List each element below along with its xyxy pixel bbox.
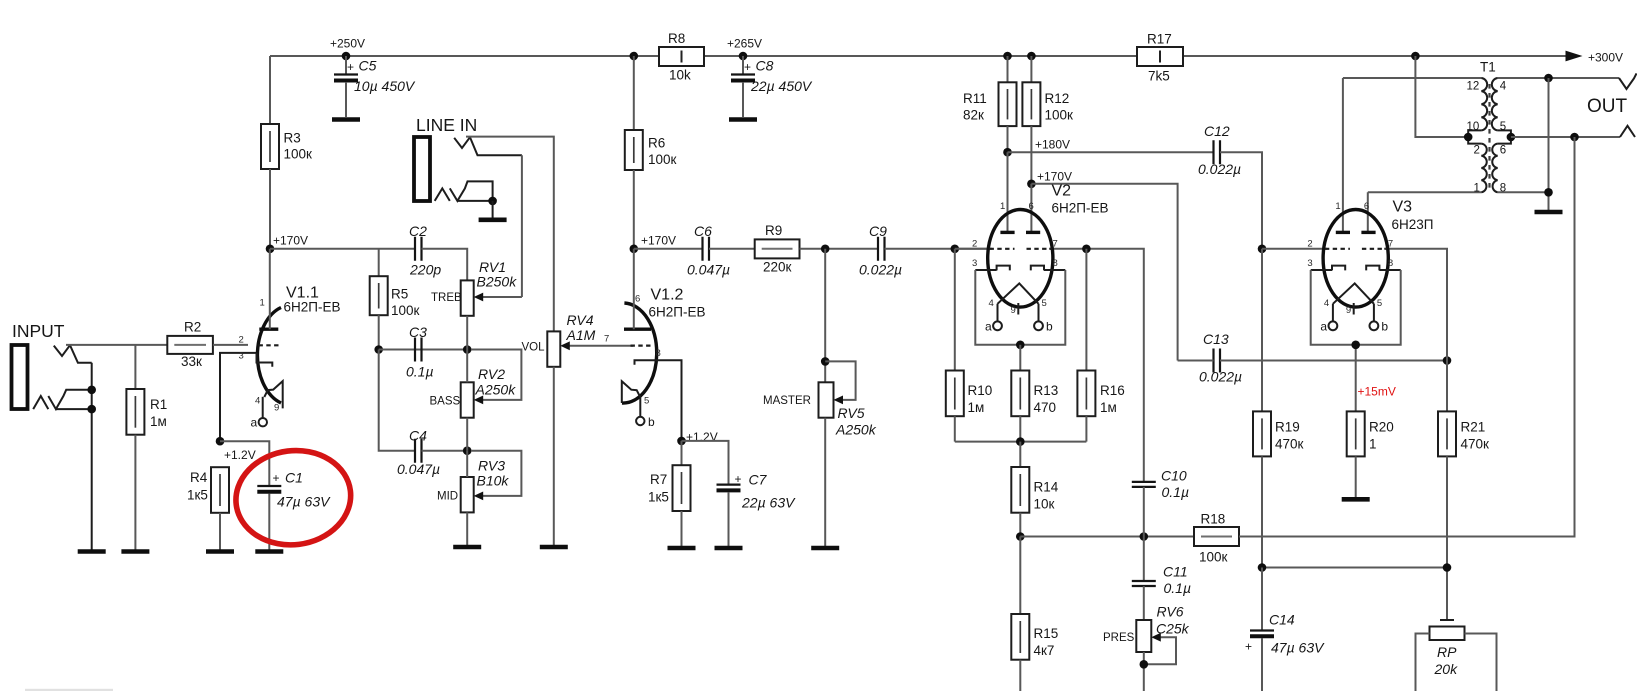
resistor R12 — [1022, 56, 1073, 184]
ground below RV3 — [453, 545, 481, 550]
wire T1 pin 8 to ground branch — [1498, 191, 1549, 193]
line-in jack sleeve contact — [435, 188, 450, 201]
resistor R9 — [755, 223, 800, 275]
line-in jack tip contact — [454, 137, 470, 148]
potentiometer RV5 MASTER — [763, 361, 877, 548]
svg-text:0.1µ: 0.1µ — [406, 364, 434, 380]
svg-text:INPUT: INPUT — [12, 321, 65, 341]
capacitor C3 — [406, 324, 434, 380]
ground below RV5 — [811, 546, 839, 551]
wire +170V line to C13 drop — [1031, 184, 1177, 361]
resistor R14 — [1011, 442, 1058, 537]
junction line-in sleeve — [488, 197, 497, 206]
wire R18 feedback line — [1020, 536, 1194, 538]
junction R6 on rail — [630, 52, 639, 61]
wire tip leaf to RV1 wiper — [521, 155, 523, 297]
svg-text:470к: 470к — [1461, 437, 1490, 452]
svg-text:V3: V3 — [1393, 199, 1413, 216]
wire line-in tip to VOL top — [466, 137, 554, 332]
wire V3 anode2 to T1 pin 1 — [1368, 191, 1482, 193]
junction R12 on rail — [1027, 52, 1036, 61]
junction C4 / RV2 bottom / RV3 — [463, 446, 472, 455]
svg-text:R20: R20 — [1369, 420, 1394, 435]
svg-text:C14: C14 — [1269, 612, 1295, 628]
input jack tip switch leaf — [70, 345, 92, 363]
svg-text:PRES: PRES — [1103, 632, 1135, 644]
svg-text:+: + — [1245, 640, 1252, 654]
junction RV6 wiper return — [1140, 660, 1149, 669]
svg-text:33к: 33к — [181, 354, 202, 369]
svg-text:A1M: A1M — [566, 327, 596, 343]
junction NFB left — [1258, 563, 1267, 572]
svg-text:1м: 1м — [1100, 400, 1117, 415]
wire V3 grid lead — [1262, 248, 1327, 250]
wire V1.1 cathode to +1.2V node — [220, 353, 257, 441]
svg-text:LINE IN: LINE IN — [416, 115, 477, 135]
junction jack leaf — [87, 386, 96, 395]
resistor R6 — [625, 56, 677, 249]
svg-text:R8: R8 — [668, 31, 685, 46]
svg-text:47µ 63V: 47µ 63V — [1271, 640, 1325, 656]
wire secondary tap to OUT sleeve — [1511, 136, 1620, 138]
svg-text:+170V: +170V — [641, 234, 676, 248]
svg-text:TREB: TREB — [431, 292, 462, 304]
svg-text:1: 1 — [260, 298, 265, 309]
transformer T1 core — [1488, 84, 1490, 189]
wire C6 to R9 — [709, 248, 755, 250]
svg-text:6Н2П-ЕВ: 6Н2П-ЕВ — [649, 305, 706, 320]
potentiometer RV3 MID — [437, 451, 521, 545]
resistor R13 — [1011, 345, 1058, 442]
svg-text:R3: R3 — [284, 131, 301, 146]
svg-text:+15mV: +15mV — [1358, 385, 1396, 399]
resistor R15 — [1011, 537, 1058, 691]
svg-text:+300V: +300V — [1588, 51, 1623, 65]
svg-text:0.047µ: 0.047µ — [687, 262, 730, 278]
capacitor C1 — [220, 441, 331, 551]
junction T1 secondary tap — [1507, 133, 1516, 142]
svg-text:C11: C11 — [1163, 564, 1188, 580]
svg-text:7: 7 — [604, 334, 609, 345]
input jack sleeve leaf — [48, 390, 91, 409]
capacitor C13 — [1199, 331, 1242, 385]
svg-text:22µ 450V: 22µ 450V — [750, 78, 813, 94]
junction OUT sleeve branch — [1570, 133, 1579, 142]
+300V arrowhead — [1566, 51, 1583, 62]
wire +170V node to C2 line — [270, 248, 415, 250]
resistor R18 — [1194, 512, 1239, 565]
svg-text:100к: 100к — [648, 152, 677, 167]
svg-text:RV3: RV3 — [478, 458, 505, 474]
potentiometer RV4 VOL — [522, 312, 634, 547]
wire R9 to C9 — [800, 248, 879, 250]
svg-text:3: 3 — [239, 351, 244, 362]
svg-text:+180V: +180V — [1035, 138, 1070, 152]
svg-text:A250k: A250k — [835, 422, 877, 438]
resistor R16 — [1077, 249, 1124, 442]
svg-text:RV4: RV4 — [567, 312, 594, 328]
resistor R7 — [648, 441, 691, 548]
svg-text:b: b — [648, 415, 655, 429]
potentiometer RV1 TREB — [431, 259, 522, 350]
wire master node down to RV5 — [824, 249, 826, 382]
potentiometer RV2 BASS — [430, 350, 522, 451]
transformer T1 secondary winding upper — [1492, 78, 1498, 130]
junction C13 / V3 grid2 — [1443, 356, 1452, 365]
T1 primary centre tap staple — [1468, 130, 1481, 143]
svg-text:100к: 100к — [284, 147, 313, 162]
wire T1 pin 4 to OUT tip — [1498, 77, 1619, 79]
svg-text:+250V: +250V — [330, 37, 365, 51]
tube V2 — [972, 201, 1065, 349]
T1 pin labels — [1467, 81, 1507, 195]
junction T1 primary tap — [1464, 133, 1473, 142]
transformer T1 secondary winding lower — [1492, 144, 1497, 193]
svg-text:0.022µ: 0.022µ — [1199, 369, 1242, 385]
svg-text:R15: R15 — [1034, 626, 1059, 641]
ground below C7 — [715, 546, 743, 551]
svg-text:C12: C12 — [1204, 123, 1230, 139]
junction C8 on rail — [739, 52, 748, 61]
wire: +250V top supply rail — [270, 55, 658, 57]
svg-text:10µ 450V: 10µ 450V — [354, 78, 416, 94]
transformer T1 primary winding upper — [1481, 78, 1487, 130]
svg-text:R16: R16 — [1100, 383, 1125, 398]
svg-text:C7: C7 — [749, 472, 768, 488]
tube V3 — [1307, 201, 1400, 349]
wire C2 to RV1 top — [422, 249, 468, 281]
resistor R19 — [1253, 411, 1304, 567]
svg-text:R13: R13 — [1034, 383, 1059, 398]
svg-text:0.022µ: 0.022µ — [859, 262, 902, 278]
junction C10 C11 node — [1140, 532, 1149, 541]
capacitor C9 — [859, 223, 902, 278]
svg-text:R2: R2 — [184, 320, 201, 335]
wire V3 anode1 to T1 pin 12 — [1343, 77, 1482, 79]
wire sleeve to junction — [457, 200, 492, 202]
junction +1.2V V1.2 node — [677, 437, 686, 446]
svg-text:+170V: +170V — [273, 234, 308, 248]
svg-text:+265V: +265V — [727, 37, 762, 51]
input jack tip contact — [54, 345, 70, 356]
svg-text:B250k: B250k — [477, 274, 518, 290]
wire V2 +170 anode pins for V3 — [1343, 78, 1368, 232]
ground below C5 — [332, 117, 360, 122]
svg-text:C13: C13 — [1203, 331, 1229, 347]
ground below R7 — [668, 546, 696, 551]
svg-text:100к: 100к — [1199, 550, 1228, 565]
svg-text:C5: C5 — [359, 58, 377, 74]
svg-text:2: 2 — [239, 335, 244, 346]
junction RV5 wiper node — [821, 357, 830, 366]
svg-text:+1.2V: +1.2V — [224, 448, 256, 462]
svg-text:VOL: VOL — [522, 342, 546, 354]
svg-text:220к: 220к — [763, 260, 792, 275]
wire R5 branch down to C4 — [379, 350, 415, 451]
svg-text:10к: 10к — [1034, 497, 1055, 512]
svg-text:6Н23П: 6Н23П — [1392, 217, 1434, 232]
junction R10 / V2 grid node — [951, 245, 960, 254]
potentiometer RV6 PRES — [1103, 604, 1190, 691]
svg-text:0.047µ: 0.047µ — [397, 461, 440, 477]
svg-text:R11: R11 — [963, 91, 987, 106]
svg-text:R7: R7 — [650, 472, 667, 487]
svg-text:C9: C9 — [869, 223, 887, 239]
junction R5 bottom / C3 — [374, 345, 383, 354]
svg-text:10k: 10k — [669, 68, 691, 83]
potentiometer RP — [1416, 620, 1497, 691]
svg-text:RV5: RV5 — [838, 405, 865, 421]
line-in jack tip switch leaf — [470, 137, 522, 155]
svg-text:+: + — [347, 60, 354, 74]
svg-text:6Н2П-ЕВ: 6Н2П-ЕВ — [284, 300, 341, 315]
svg-text:10: 10 — [1467, 121, 1480, 133]
out jack sleeve contact — [1620, 126, 1635, 137]
wire jack shunt vertical to ground — [91, 363, 93, 552]
ground below R20 — [1342, 497, 1370, 502]
svg-text:7k5: 7k5 — [1148, 69, 1170, 84]
junction R11 on rail — [1003, 52, 1012, 61]
resistor R2 — [167, 320, 213, 370]
svg-text:4к7: 4к7 — [1034, 643, 1055, 658]
svg-text:1к5: 1к5 — [187, 488, 208, 503]
junction +170V node — [266, 245, 275, 254]
svg-text:MASTER: MASTER — [763, 395, 811, 407]
svg-text:470: 470 — [1034, 400, 1057, 415]
wire: rail R8 to C8 and onward — [704, 55, 1567, 57]
capacitor C6 — [687, 223, 730, 278]
svg-text:0.1µ: 0.1µ — [1164, 580, 1192, 596]
ground below T1 — [1535, 210, 1563, 215]
line-in jack body — [414, 137, 430, 201]
wire NFB line R19 to R21 — [1262, 567, 1447, 569]
wire C4 to junction — [422, 450, 468, 452]
junction +1.2V node — [216, 437, 225, 446]
svg-text:R1: R1 — [150, 397, 167, 412]
svg-text:5: 5 — [1500, 121, 1506, 133]
svg-text:1м: 1м — [150, 414, 167, 429]
capacitor C5 — [334, 56, 416, 117]
junction C3 / RV1 bottom — [463, 345, 472, 354]
svg-text:R9: R9 — [765, 223, 782, 238]
input jack sleeve contact — [33, 396, 48, 409]
svg-text:100к: 100к — [391, 303, 420, 318]
svg-text:0.1µ: 0.1µ — [1162, 484, 1190, 500]
ground below input jack — [78, 549, 106, 554]
capacitor C7 — [682, 441, 797, 548]
resistor R4 — [187, 467, 229, 551]
capacitor C8 — [731, 56, 813, 117]
wire C12 node down to R19 — [1261, 249, 1263, 412]
resistor R20 — [1347, 411, 1394, 497]
svg-text:1к5: 1к5 — [648, 490, 669, 505]
junction pin8 ground — [1544, 188, 1553, 197]
wire V2 grid2 lead to C10 drop — [1049, 249, 1144, 482]
capacitor C4 — [397, 428, 440, 478]
svg-text:C1: C1 — [285, 470, 303, 486]
svg-text:+: + — [273, 471, 280, 485]
wire V2 anode pins — [1008, 152, 1032, 232]
wire V1.2 cathode to +1.2V node — [651, 360, 682, 441]
svg-text:+: + — [744, 60, 751, 74]
svg-text:MID: MID — [437, 491, 458, 503]
capacitor C11 — [1132, 537, 1191, 621]
svg-text:R21: R21 — [1461, 420, 1486, 435]
ground below R1 — [121, 549, 149, 554]
resistor R10 — [946, 249, 992, 442]
resistor R21 — [1438, 361, 1489, 621]
wire OUT sleeve to feedback — [1574, 137, 1576, 537]
wire V3 cathode down to R20 — [1355, 345, 1357, 412]
svg-text:RV6: RV6 — [1157, 604, 1184, 620]
resistor R1 — [126, 345, 167, 552]
transformer T1 primary winding lower — [1481, 144, 1486, 193]
svg-text:R5: R5 — [391, 287, 408, 302]
svg-text:20k: 20k — [1434, 661, 1459, 677]
junction +170V V2 node — [1027, 180, 1036, 189]
wire +180V line to C12 — [1008, 151, 1214, 153]
svg-text:8: 8 — [656, 348, 661, 359]
svg-text:B10k: B10k — [477, 473, 510, 489]
svg-text:BASS: BASS — [430, 396, 461, 408]
junction +170V V1.2 node — [630, 245, 639, 254]
svg-text:4: 4 — [255, 396, 260, 407]
svg-text:R6: R6 — [648, 136, 665, 151]
svg-text:+: + — [735, 472, 742, 486]
svg-text:C10: C10 — [1161, 468, 1187, 484]
junction OUT tip branch — [1544, 74, 1553, 83]
svg-text:OUT: OUT — [1587, 96, 1628, 117]
wire OUT ground vertical — [1548, 78, 1550, 210]
svg-text:1: 1 — [1369, 437, 1377, 452]
svg-text:C2: C2 — [409, 223, 427, 239]
svg-text:R4: R4 — [190, 470, 208, 485]
wire R10 R13 R16 common — [955, 441, 1087, 443]
wire +170V to C6 — [634, 248, 703, 250]
junction +180V node — [1003, 148, 1012, 157]
wire C9 to V2 grid — [885, 248, 991, 250]
svg-text:12: 12 — [1467, 81, 1480, 93]
junction T1 feed on rail — [1411, 52, 1420, 61]
junction C5 on rail — [342, 52, 351, 61]
capacitor C12 — [1198, 123, 1241, 177]
svg-text:V1.2: V1.2 — [651, 287, 684, 304]
wire R2 to V1.1 grid — [213, 344, 248, 346]
svg-text:2: 2 — [1474, 145, 1480, 157]
ground below RV4 — [540, 545, 568, 550]
junction R16 top — [1082, 245, 1091, 254]
svg-text:C6: C6 — [694, 223, 712, 239]
out jack tip contact — [1619, 73, 1637, 89]
line-in jack sleeve leaf — [450, 181, 493, 201]
svg-text:5: 5 — [644, 396, 649, 407]
svg-text:R18: R18 — [1201, 512, 1226, 527]
wire V3 grid2 lead to drop — [1384, 249, 1447, 361]
svg-text:RP: RP — [1437, 644, 1457, 660]
junction R13 bottom — [1016, 437, 1025, 446]
wire rail to T1 primary centre — [1415, 56, 1468, 137]
resistor R3 — [261, 56, 312, 169]
svg-text:0.022µ: 0.022µ — [1198, 161, 1241, 177]
resistor R17 — [1137, 32, 1183, 84]
svg-text:C4: C4 — [409, 428, 427, 444]
svg-text:6Н2П-ЕВ: 6Н2П-ЕВ — [1052, 201, 1109, 216]
wire R18 to output node — [1239, 536, 1576, 538]
ground below line-in jack — [479, 218, 507, 223]
wire C3 line — [379, 349, 468, 351]
cropped artifact bottom left — [25, 689, 113, 691]
capacitor C2 — [409, 223, 441, 278]
svg-text:R17: R17 — [1147, 32, 1172, 47]
resistor R5 — [370, 249, 420, 350]
svg-text:6: 6 — [635, 294, 640, 305]
svg-text:C25k: C25k — [1156, 621, 1190, 637]
red highlight ellipse around C1 — [231, 444, 357, 551]
resistor R11 — [963, 56, 1017, 152]
ground below C8 — [729, 117, 757, 122]
wire R3 to +170V node — [269, 169, 271, 249]
svg-text:4: 4 — [1500, 81, 1507, 93]
junction V3 grid node — [1258, 245, 1267, 254]
svg-text:T1: T1 — [1480, 60, 1496, 75]
svg-text:220p: 220p — [409, 262, 441, 278]
svg-text:C3: C3 — [409, 324, 427, 340]
svg-text:C8: C8 — [756, 58, 774, 74]
junction R9 / master node — [821, 245, 830, 254]
T1 secondary centre tap staple — [1498, 130, 1511, 143]
svg-text:22µ 63V: 22µ 63V — [741, 495, 796, 511]
svg-text:82к: 82к — [963, 108, 984, 123]
wire sleeve bottom to junction — [56, 408, 92, 410]
capacitor C10 — [1132, 468, 1189, 537]
wire junction to ground — [492, 201, 494, 218]
svg-text:9: 9 — [274, 403, 279, 414]
svg-text:V2: V2 — [1052, 183, 1072, 200]
tube V1.2 half-triode — [604, 249, 661, 429]
svg-text:R12: R12 — [1045, 91, 1070, 106]
junction NFB right — [1443, 563, 1452, 572]
tube V1.1 half-triode — [239, 249, 283, 430]
junction R14 bottom / R18 line — [1016, 532, 1025, 541]
wire C13 line — [1178, 360, 1447, 362]
ground below C1 — [255, 549, 283, 554]
svg-text:R14: R14 — [1034, 480, 1059, 495]
wire V2 grid1 lead — [955, 248, 992, 250]
svg-text:6: 6 — [1500, 145, 1506, 157]
wire input tip to R2 and grid — [66, 344, 167, 346]
ground below R4 — [206, 549, 234, 554]
svg-text:100к: 100к — [1045, 108, 1074, 123]
input jack body — [12, 345, 28, 409]
junction jack sleeve — [87, 405, 96, 414]
svg-text:1: 1 — [1474, 183, 1480, 195]
svg-text:a: a — [251, 416, 258, 430]
svg-text:R19: R19 — [1275, 420, 1300, 435]
wire C12 to V3 grid drop — [1220, 152, 1262, 249]
svg-text:A250k: A250k — [475, 382, 517, 398]
svg-text:RV2: RV2 — [478, 366, 505, 382]
svg-text:47µ 63V: 47µ 63V — [277, 494, 331, 510]
capacitor C14 — [1245, 568, 1325, 691]
resistor R8 — [659, 31, 704, 83]
svg-text:R10: R10 — [968, 383, 993, 398]
svg-text:470к: 470к — [1275, 437, 1304, 452]
svg-text:1м: 1м — [968, 400, 985, 415]
svg-text:+170V: +170V — [1037, 170, 1072, 184]
